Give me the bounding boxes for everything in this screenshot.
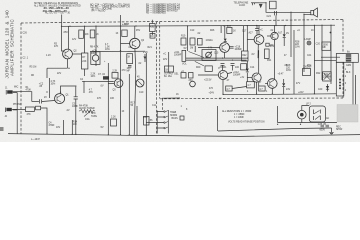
bottom notes block: [222, 110, 265, 124]
resistor R30 box: [303, 67, 313, 76]
wire down from jack line: [275, 15, 277, 25]
pilot lamp LP1 with dot: [298, 110, 307, 119]
capacitor C20 box: [322, 42, 331, 50]
wire x=314.4: [313, 25, 315, 94]
scan mark left edge: [0, 127, 4, 131]
chassis dashed border: right box bottom: [160, 97, 343, 100]
transistor Q1: [55, 94, 70, 104]
resistor R15 box above Q3: [112, 71, 118, 79]
wire Q10 base stub: [267, 35, 271, 37]
chassis dashed border: right edge: [342, 20, 344, 99]
wire audio path y=81.3: [82, 80, 114, 82]
resistor R1 box: [26, 87, 32, 92]
resistor R18 box mid: [165, 66, 174, 72]
function switch S1 assembly: [157, 110, 178, 134]
wire Q5 emitter to bus: [224, 52, 226, 58]
wire R12 to node: [41, 108, 47, 121]
gray box bottom right: [337, 105, 358, 123]
wire from speaker node down: [290, 12, 292, 19]
AC plug box: [309, 106, 329, 122]
wire R2 vertical: [49, 78, 51, 98]
wire from rail down left branch: [62, 26, 65, 51]
resistor R14 label: [73, 122, 78, 127]
telephone jack label: [234, 2, 249, 8]
capacitor C24 in speaker line: [267, 11, 277, 18]
long vertical wire x=129.3: [128, 74, 130, 135]
resistor R21 box: [190, 38, 202, 50]
capacitor C7: [127, 66, 132, 73]
wire x=322: [321, 25, 323, 80]
wire rail stub up to notes: [61, 15, 63, 27]
thermistor circle: [136, 77, 144, 88]
wire x=304 down: [303, 20, 305, 72]
jack body box top right: [270, 1, 277, 9]
lamp circle small: [305, 38, 312, 45]
wire vertical x=217.6 below box: [217, 106, 219, 131]
transistor Q5: [220, 26, 230, 52]
wire bottom right y=131: [218, 128, 332, 131]
wire output line y=98: [162, 97, 180, 99]
resistor R12 box: [36, 106, 41, 110]
wire Q4 emitter down: [134, 49, 136, 135]
capacitor C18a small box: [266, 43, 269, 46]
resistor box below trimmer: [205, 66, 212, 72]
resistor R27 box hanging from rail: [227, 26, 236, 34]
wire Q2 to R7: [72, 53, 81, 55]
resistor R6 box on x=120.5: [116, 30, 128, 36]
resistor R24 box: [226, 86, 232, 91]
wire Q7 base horizontal: [198, 74, 218, 76]
long vertical wire x=120.5: [120, 15, 122, 135]
wires right edge vertical pair: [353, 62, 356, 104]
capacitor C15 box left column: [189, 73, 194, 83]
diode D1: [143, 52, 148, 62]
capacitor C6 dark box: [98, 74, 109, 79]
capacitor C19 on rail: [283, 25, 289, 46]
scan noise overlay: [0, 0, 1, 1]
wire Q3 base: [108, 82, 114, 84]
resistor R13 vertical wire: [63, 120, 65, 134]
notes block A (top left): [34, 2, 81, 15]
wire C4 vertical: [46, 121, 48, 134]
chassis dashed border: top edge: [21, 20, 343, 24]
chassis dashed border: mid double line left: [156, 22, 158, 135]
wire C1 to Q1 base: [42, 101, 55, 102]
resistor R25 box (top, near dashed border): [150, 20, 156, 35]
wire Q7 emitter down: [222, 80, 224, 95]
capacitor C25 pair: [318, 124, 329, 132]
wire Q8 base: [247, 77, 252, 79]
resistor R19a box on x=146.3: [144, 117, 153, 126]
capacitor C12 box left column: [181, 71, 186, 78]
capacitor C22 box: [323, 72, 332, 81]
wire Q7 collector stub: [228, 73, 232, 74]
speaker horn LS1: [311, 8, 318, 17]
trimmer R20 box with dial: [202, 48, 216, 61]
wire Q5 cage right: [243, 26, 245, 51]
wire Q5 cage left: [220, 26, 222, 33]
capacitor C18 on rail: [255, 25, 263, 34]
wire J2 to R11: [12, 108, 26, 110]
electrolytic capacitor C14: [231, 64, 240, 71]
resistor R4 box on rail drop: [79, 30, 89, 38]
potentiometer R4 zigzag: [79, 106, 95, 117]
resistor boxes left of Q5: [181, 36, 186, 46]
wire horizontal feed line y=50.7: [90, 50, 145, 52]
resistor R10 box: [127, 54, 133, 64]
wire Q9 emitter down: [271, 88, 273, 94]
resistor R2 label: [51, 81, 56, 86]
long vertical wire x=108.3: [107, 63, 109, 135]
diode D2: [326, 84, 329, 92]
capacitor C3 electrolytic: [72, 97, 79, 108]
resistor R26 box: [259, 86, 265, 91]
resistor R16 box bottom: [91, 113, 117, 126]
notes block B (top middle): [90, 3, 131, 12]
wire Q1 collector up: [61, 86, 76, 94]
switch S2 arrow: [189, 46, 205, 66]
labels 4.7/47K: [89, 89, 94, 94]
+48V supply rail: [62, 25, 335, 26]
terminal strip outer box: [336, 54, 358, 63]
wire Q4 collector up to rail: [134, 26, 136, 38]
wire rail to R7: [84, 26, 86, 76]
transistor Q6: [254, 26, 264, 45]
right box: wire from rail down x=187.6: [187, 26, 189, 52]
terminal dots: [339, 79, 341, 90]
left box bottom solid line: [8, 134, 240, 137]
wire vertical x=277.6 lamp branch: [277, 106, 279, 123]
wire +24V line: [223, 93, 336, 96]
transistor Q2: [63, 49, 78, 59]
input jack J1: [5, 88, 13, 95]
wire x=294: [293, 30, 295, 94]
feedback bus wires: [186, 57, 247, 59]
capacitor C9 under R25: [150, 34, 155, 39]
label mid 100MF: [163, 52, 182, 57]
wire x=146.3 switch feed: [146, 122, 157, 124]
wire x=84 drop: [83, 81, 85, 93]
speaker return wire: [304, 14, 311, 19]
notes block C (numbered list, top middle-right): [146, 4, 180, 14]
transistor Q10: [271, 32, 283, 40]
wire Q6 emitter down: [257, 44, 259, 58]
wire J2 branch down to bottom line: [13, 93, 17, 134]
resistor R23 box: [247, 82, 255, 88]
label 2.2K 10% left: [91, 74, 96, 79]
transistor Q3: [113, 79, 123, 91]
resistor R22 tall box: [242, 51, 249, 61]
long vertical x=258.7: [258, 50, 260, 86]
wire Q6 base: [247, 39, 254, 41]
terminal strip screws: [346, 51, 351, 62]
wire from rail to Q2 collector: [68, 26, 70, 49]
wire C3 vertical: [75, 86, 77, 134]
input jack J2: [5, 108, 12, 119]
feedback bus wire 2: [186, 59, 247, 61]
bottom line continues under switch: [240, 135, 360, 137]
wire Q2 emitter down: [67, 59, 69, 68]
wire Q5 base horizontal: [198, 47, 220, 49]
telephone jack symbol J3: [251, 3, 263, 8]
electrolytic capacitor C5: [91, 51, 100, 65]
wire jack to speaker: [259, 3, 311, 13]
wire Q8 emitter down: [256, 82, 258, 94]
wire Q10 vertical: [274, 26, 276, 80]
dashed stub below right box bottom: [162, 99, 164, 110]
resistor box right of Q6: [265, 49, 270, 59]
wire R14 vertical: [71, 120, 73, 134]
long vertical wire x=137: [136, 106, 138, 135]
wire from speaker node down x=291: [290, 20, 292, 57]
wire terminal horizontal y=60: [314, 59, 336, 61]
wire R24 to R23: [232, 87, 247, 89]
terminal strip lower tall box: [336, 62, 344, 96]
title: JORDAN MODEL 120 & 140 AMPLIFIER SCHEMATIC (vertical): [5, 10, 15, 79]
C1 label: [39, 84, 44, 89]
capacitor C4 label: [49, 123, 56, 128]
wire x=331: [330, 25, 332, 84]
wire J1 to R1: [13, 92, 32, 102]
volume pot R20: [182, 50, 187, 65]
resistor R11 box: [25, 107, 34, 116]
small box lower mid left: [180, 116, 184, 120]
diode D3: [282, 79, 285, 94]
transistor Q8 (power): [252, 73, 261, 82]
wire x=96 rail to C5 box: [95, 26, 97, 52]
paper background: [0, 0, 360, 142]
wire mid section vertical x=168.7: [168, 52, 170, 72]
resistor R28 labels: [295, 42, 300, 49]
wire y=53.7 to terminal strip: [321, 56, 340, 58]
wire R1 to C1: [32, 101, 39, 103]
electrolytic capacitor C13: [218, 64, 225, 71]
junction dot x331: [330, 32, 332, 34]
junction circle mid: [190, 81, 196, 87]
transistor Q4: [130, 38, 145, 48]
wire lamp circuit: [278, 106, 337, 123]
chassis dashed border: mid double line right: [159, 22, 161, 99]
resistor box below R22: [241, 64, 247, 70]
capacitor C22 label: [323, 74, 332, 79]
long vertical x=247.3: [246, 25, 248, 81]
chassis dashed border: left edge: [20, 23, 22, 134]
transistor Q7 (power): [218, 70, 227, 79]
wire C5 leads: [95, 51, 97, 66]
output label block: [164, 74, 179, 79]
wire Q4 base: [121, 43, 130, 45]
transistor Q9 (power): [268, 79, 278, 89]
resistor R9a box on rail drop: [90, 30, 99, 38]
diode D5 on x=247.3: [246, 69, 249, 72]
ground symbol: [329, 128, 333, 135]
resistor R17 label: [131, 103, 136, 108]
capacitor C20 labels: [316, 44, 329, 50]
capacitor C16: [229, 46, 242, 51]
wire node to R7: [47, 68, 68, 78]
long vertical wire x=146.3: [145, 53, 147, 135]
diode D4 above Q5: [224, 39, 227, 42]
voltage and value labels scattered: [31, 30, 351, 129]
wire Q9 base stub: [265, 83, 267, 85]
resistor R7 box: [82, 53, 88, 69]
capacitor C1: [40, 99, 42, 103]
